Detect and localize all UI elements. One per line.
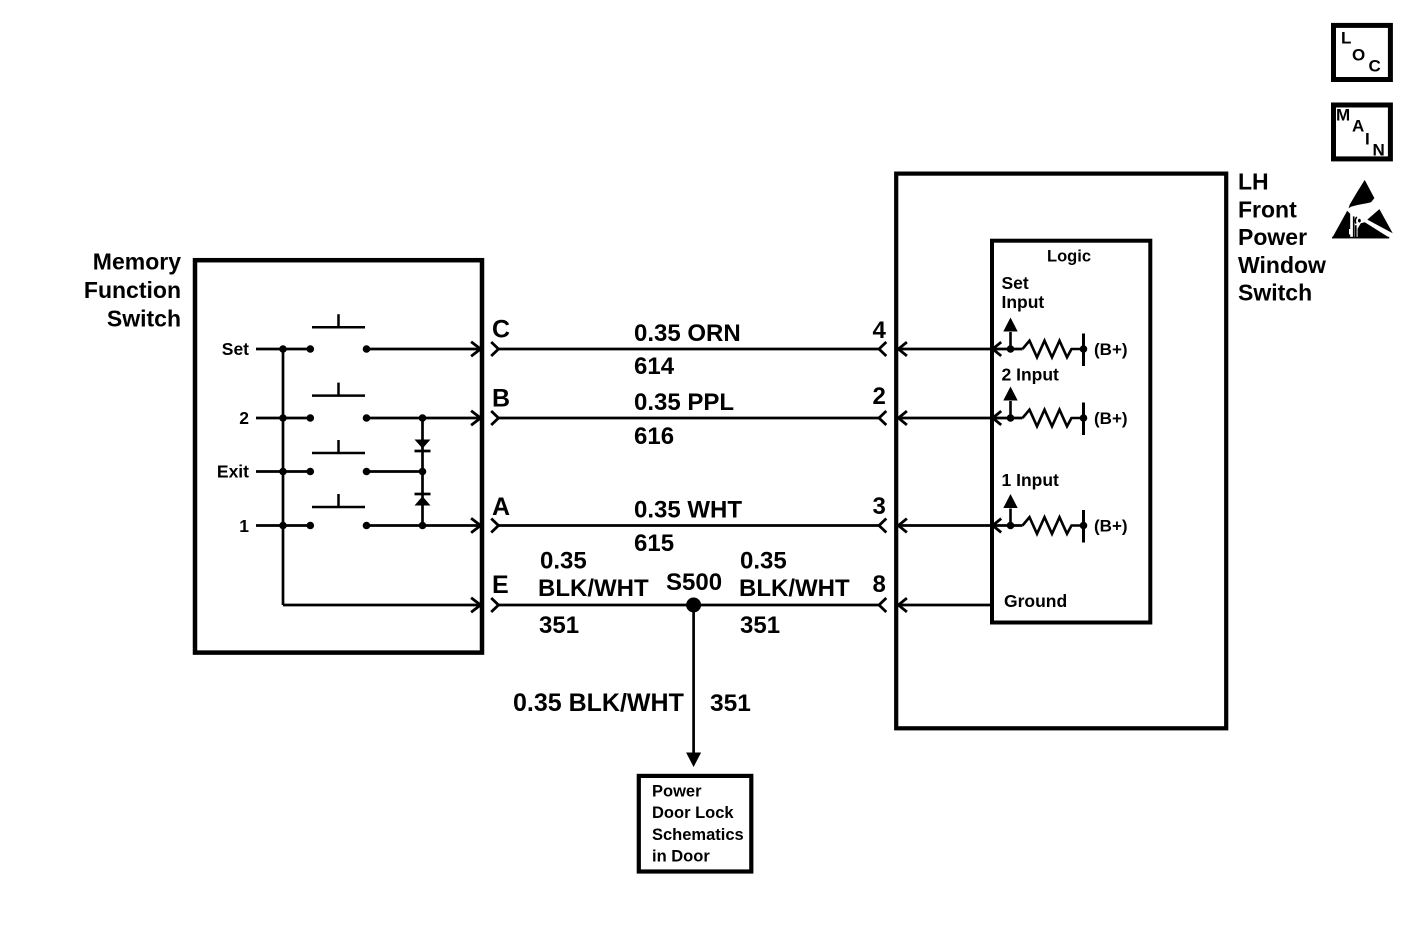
switch S-2 left contact — [307, 414, 315, 422]
pin 4 connector — [879, 342, 886, 356]
ESD sensitive device symbol — [1332, 180, 1393, 239]
svg-text:0.35 WHT: 0.35 WHT — [634, 497, 742, 524]
svg-text:0.35 ORN: 0.35 ORN — [634, 320, 741, 347]
svg-text:351: 351 — [710, 690, 751, 717]
arrow 1 Input at Logic wall — [993, 519, 1002, 533]
junction (B+) Set Input — [1080, 345, 1088, 353]
switch S-1 right contact — [363, 522, 371, 530]
svg-text:0.35: 0.35 — [540, 548, 587, 575]
svg-text:in Door: in Door — [652, 848, 710, 866]
resistor R-1 Input — [1023, 517, 1081, 534]
arrow E row at wall — [471, 598, 481, 612]
wire 1 row right segment — [367, 524, 480, 527]
svg-text:4: 4 — [872, 317, 886, 344]
diode CR2 — [415, 494, 431, 506]
wire C-4 (0.35 ORN 614) — [499, 348, 880, 351]
pin C connector — [491, 342, 498, 356]
input arrow 1 Input — [1003, 494, 1017, 526]
svg-text:Function: Function — [84, 277, 181, 303]
junction Set Input — [1007, 345, 1015, 353]
junction 1/diode chain — [419, 522, 427, 530]
junction (B+) 1 Input — [1080, 522, 1088, 530]
wire A-3 (0.35 WHT 615) — [499, 524, 880, 527]
svg-text:2: 2 — [872, 383, 885, 410]
svg-text:Input: Input — [1002, 292, 1045, 312]
svg-text:2 Input: 2 Input — [1002, 365, 1060, 385]
wire E-8 right segment (0.35 BLK/WHT 351) — [694, 604, 879, 607]
resistor R-Set Input — [1023, 341, 1081, 358]
LH Front Power Window Switch box — [896, 174, 1226, 729]
arrow Ground at outer wall — [898, 598, 907, 612]
input arrow Set Input — [1003, 318, 1017, 350]
pushbutton switch S-2 actuator bar — [312, 383, 365, 396]
wire E-8 left segment (0.35 BLK/WHT 351) — [499, 604, 694, 607]
pushbutton switch S-1 actuator bar — [312, 494, 365, 507]
svg-text:1: 1 — [239, 516, 249, 536]
switch S-Exit right contact — [363, 468, 371, 476]
svg-text:S500: S500 — [666, 569, 722, 596]
arrow Set Input at outer wall — [898, 342, 907, 356]
svg-text:Logic: Logic — [1047, 248, 1091, 266]
arrow 1 Input at outer wall — [898, 519, 907, 533]
svg-text:BLK/WHT: BLK/WHT — [739, 575, 850, 602]
wire E row inside — [283, 604, 480, 607]
wire Exit row right segment — [367, 470, 423, 473]
pin A connector — [491, 519, 498, 533]
pin B connector — [491, 411, 498, 425]
bus wire (common) — [282, 349, 285, 605]
junction 1/bus — [279, 522, 287, 530]
junction Set/bus — [279, 345, 287, 353]
junction Exit/bus — [279, 468, 287, 476]
switch S-Set right contact — [363, 345, 371, 353]
(B+) supply tick 1 Input — [1082, 510, 1085, 543]
diode CR1 — [415, 440, 431, 452]
value label 0.35 BLK/WHT left — [538, 548, 649, 603]
svg-text:1 Input: 1 Input — [1002, 470, 1060, 490]
arrow to Power Door Lock Schematics — [686, 753, 701, 768]
junction 2 Input — [1007, 414, 1015, 422]
svg-text:(B+): (B+) — [1094, 340, 1128, 359]
svg-text:0.35: 0.35 — [740, 548, 787, 575]
svg-text:I: I — [1365, 130, 1370, 149]
splice S500 — [686, 598, 701, 613]
pushbutton switch S-Set actuator bar — [312, 314, 365, 327]
junction 1 Input — [1007, 522, 1015, 530]
wire 2 Input row — [898, 417, 1022, 420]
Power Door Lock Schematics in Door box — [639, 776, 752, 872]
label Power Door Lock Schematics in Door — [652, 783, 744, 866]
svg-text:351: 351 — [539, 612, 579, 639]
arrow Set Input at Logic wall — [993, 342, 1002, 356]
wire S500 drop (0.35 BLK/WHT 351) — [692, 605, 695, 754]
label LOC — [1341, 29, 1381, 76]
wire 1 row left segment — [256, 524, 310, 527]
svg-text:Ground: Ground — [1004, 591, 1067, 611]
wire B-2 (0.35 PPL 616) — [499, 417, 880, 420]
label Memory Function Switch — [84, 249, 181, 332]
Logic box — [992, 241, 1150, 623]
svg-text:C: C — [1369, 57, 1381, 76]
svg-text:A: A — [492, 493, 510, 521]
svg-text:Switch: Switch — [1238, 280, 1312, 306]
svg-text:Window: Window — [1238, 252, 1326, 278]
wire 2 row right segment — [367, 417, 480, 420]
svg-text:(B+): (B+) — [1094, 409, 1128, 428]
pushbutton switch S-Exit actuator bar — [312, 440, 365, 453]
svg-text:Front: Front — [1238, 196, 1297, 222]
(B+) supply tick 2 Input — [1082, 403, 1085, 436]
pin 3 connector — [879, 519, 886, 533]
junction 2/diode chain — [419, 414, 427, 422]
junction (B+) 2 Input — [1080, 414, 1088, 422]
svg-text:Set: Set — [222, 339, 249, 359]
svg-text:0.35 PPL: 0.35 PPL — [634, 389, 734, 416]
value label 0.35 BLK/WHT right — [739, 548, 850, 603]
pin 2 connector — [879, 411, 886, 425]
svg-text:O: O — [1352, 46, 1365, 65]
svg-text:B: B — [492, 385, 510, 413]
junction 2/bus — [279, 414, 287, 422]
svg-text:2: 2 — [239, 408, 249, 428]
MAIN reference box — [1334, 105, 1391, 159]
wire Exit row left segment — [256, 470, 310, 473]
arrow 2 row at wall — [471, 411, 481, 425]
svg-text:351: 351 — [740, 612, 780, 639]
wire 1 Input row — [898, 524, 1022, 527]
svg-text:Door Lock: Door Lock — [652, 804, 734, 822]
svg-text:Schematics: Schematics — [652, 826, 744, 844]
wire Set Input row — [898, 348, 1022, 351]
Memory Function Switch box — [195, 260, 482, 652]
switch S-Exit left contact — [307, 468, 315, 476]
input arrow 2 Input — [1003, 387, 1017, 419]
LOC reference box — [1334, 25, 1391, 79]
svg-text:M: M — [1336, 106, 1350, 125]
svg-text:Power: Power — [652, 783, 702, 801]
wire Set row left segment — [256, 348, 310, 351]
(B+) supply tick Set Input — [1082, 334, 1085, 367]
label MAIN — [1336, 106, 1385, 160]
pin 8 connector — [879, 598, 886, 612]
svg-text:(B+): (B+) — [1094, 517, 1128, 536]
junction Exit/diode chain — [419, 468, 427, 476]
svg-text:Memory: Memory — [93, 249, 181, 275]
resistor R-2 Input — [1023, 410, 1081, 427]
pin E connector — [491, 598, 498, 612]
svg-text:Set: Set — [1002, 273, 1029, 293]
svg-text:N: N — [1373, 141, 1385, 160]
svg-text:C: C — [492, 316, 510, 344]
arrow 1 row at wall — [471, 518, 481, 532]
svg-text:E: E — [492, 571, 509, 599]
label LH Front Power Window Switch — [1238, 169, 1326, 306]
wire Set row right segment — [367, 348, 480, 351]
diode chain wire — [421, 418, 424, 526]
switch S-Set left contact — [307, 345, 315, 353]
svg-text:614: 614 — [634, 353, 675, 380]
svg-text:3: 3 — [872, 493, 885, 520]
svg-text:Exit: Exit — [217, 461, 249, 481]
svg-text:616: 616 — [634, 423, 674, 450]
switch S-1 left contact — [307, 522, 315, 530]
svg-text:Switch: Switch — [107, 305, 181, 331]
svg-text:A: A — [1352, 117, 1364, 136]
arrow Set row at wall — [471, 342, 481, 356]
svg-text:BLK/WHT: BLK/WHT — [538, 575, 649, 602]
svg-text:L: L — [1341, 29, 1351, 48]
label Set Input — [1002, 273, 1045, 312]
arrow 2 Input at Logic wall — [993, 411, 1002, 425]
arrow 2 Input at outer wall — [898, 411, 907, 425]
svg-text:0.35 BLK/WHT: 0.35 BLK/WHT — [513, 689, 684, 717]
wire Ground row — [898, 604, 992, 607]
svg-text:8: 8 — [872, 571, 885, 598]
svg-text:Power: Power — [1238, 224, 1307, 250]
wire 2 row left segment — [256, 417, 310, 420]
switch S-2 right contact — [363, 414, 371, 422]
svg-text:615: 615 — [634, 530, 674, 557]
svg-text:LH: LH — [1238, 169, 1269, 195]
